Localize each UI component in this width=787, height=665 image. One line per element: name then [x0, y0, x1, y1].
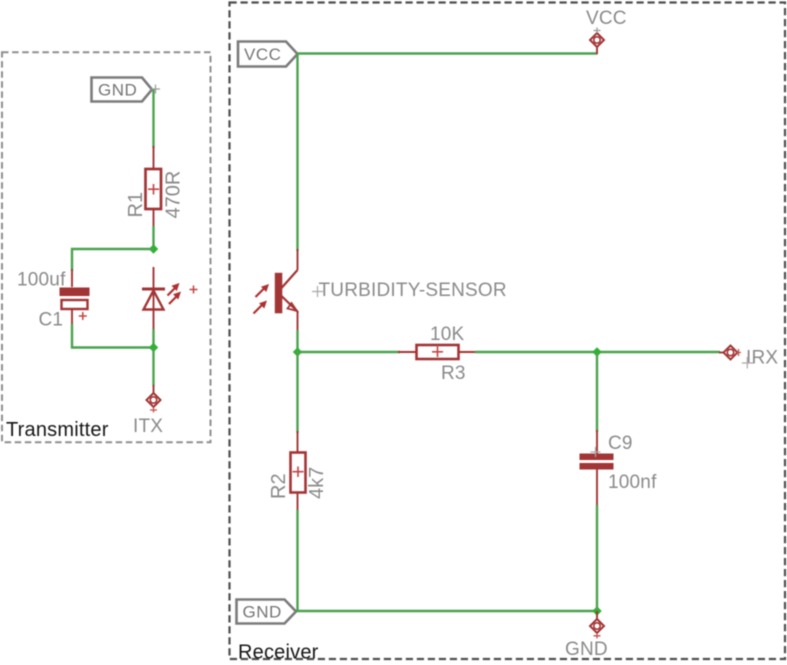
receiver frame	[230, 3, 786, 660]
pin IRX	[719, 346, 741, 360]
IRX origin cross	[742, 357, 753, 369]
svg-text:C1: C1	[39, 310, 64, 331]
wire VCC flag to VCC pin	[298, 52, 598, 54]
svg-text:GND: GND	[243, 603, 282, 622]
wire collector node to node C	[296, 330, 298, 352]
wire R3 to node D and IRX	[475, 351, 720, 353]
svg-text:4k7: 4k7	[306, 467, 328, 499]
wire node C to R2	[296, 352, 298, 433]
wire node D to C9	[596, 352, 598, 432]
wire VCC to phototransistor collector	[296, 54, 298, 252]
phototransistor Q1	[275, 249, 298, 332]
wire node A to C1 top	[72, 249, 154, 271]
svg-text:100uf: 100uf	[17, 270, 66, 291]
wire node B to pin ITX	[152, 348, 154, 387]
wire GND flag to node E	[296, 610, 597, 612]
pin ITX	[147, 385, 161, 413]
LED polarity +	[190, 286, 198, 294]
pin VCC	[590, 28, 604, 55]
resistor R2	[291, 431, 306, 512]
node C junction	[293, 347, 302, 356]
node B junction	[149, 343, 158, 352]
resistor R1	[146, 146, 162, 228]
wire C9 to node E	[596, 505, 598, 611]
svg-text:VCC: VCC	[244, 45, 281, 64]
wire LED to node B	[152, 329, 154, 348]
svg-text:GND: GND	[565, 639, 608, 660]
svg-text:Receiver: Receiver	[238, 642, 319, 664]
resistor R3	[398, 345, 477, 359]
svg-text:Transmitter: Transmitter	[6, 419, 109, 441]
node D junction	[592, 347, 601, 356]
svg-text:TURBIDITY-SENSOR: TURBIDITY-SENSOR	[319, 280, 507, 301]
LED D1	[142, 267, 165, 330]
C9 origin cross	[591, 447, 601, 457]
wire C1 to node B	[72, 324, 154, 348]
VCC flag (receiver)	[238, 42, 298, 67]
svg-text:100nf: 100nf	[608, 472, 657, 493]
GND flag (transmitter)	[92, 78, 161, 102]
phototransistor light arrows	[254, 284, 270, 314]
capacitor C9	[580, 430, 614, 507]
svg-text:10K: 10K	[430, 324, 465, 345]
svg-text:R3: R3	[441, 363, 466, 384]
wire node C to R3	[298, 351, 401, 353]
svg-text:C9: C9	[608, 433, 633, 454]
svg-text:470R: 470R	[163, 171, 185, 219]
svg-text:ITX: ITX	[133, 416, 163, 437]
svg-text:R2: R2	[268, 473, 290, 499]
svg-text:VCC: VCC	[586, 8, 627, 29]
wire GND flag to R1	[152, 90, 154, 149]
transmitter frame	[2, 52, 211, 442]
part origin cross	[312, 286, 323, 297]
svg-text:IRX: IRX	[746, 348, 778, 369]
pin GND	[590, 611, 604, 639]
node A junction	[149, 244, 158, 253]
svg-text:R1: R1	[125, 192, 147, 218]
GND flag (receiver)	[237, 600, 297, 624]
wire R1 to node A	[152, 226, 154, 249]
svg-text:GND: GND	[98, 81, 137, 100]
wire R2 to GND flag	[296, 510, 298, 611]
capacitor C1	[60, 269, 90, 326]
LED light arrows	[168, 283, 182, 304]
node E junction	[592, 606, 601, 615]
